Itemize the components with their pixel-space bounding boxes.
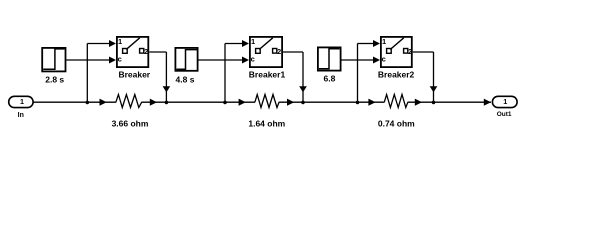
svg-text:1.64 ohm: 1.64 ohm	[248, 118, 285, 128]
svg-text:c: c	[118, 55, 122, 64]
wire: Step2 output to Breaker2 port c	[342, 57, 381, 64]
resistor R2 1.64 ohm	[248, 95, 285, 129]
wire arrow into resistor R2	[239, 99, 246, 106]
step source Step2 (6.8)	[318, 47, 341, 83]
svg-text:1: 1	[118, 37, 122, 46]
wire: node C up to Breaker1 port 1	[225, 40, 249, 102]
svg-text:1: 1	[503, 97, 507, 106]
svg-text:c: c	[251, 55, 255, 64]
node C junction dot	[223, 101, 227, 105]
wire: Breaker2 port 2 down to node F	[413, 52, 438, 102]
svg-text:0.74 ohm: 0.74 ohm	[378, 118, 415, 128]
svg-text:2: 2	[408, 49, 412, 56]
svg-text:c: c	[382, 55, 386, 64]
wire arrow into port Out1	[484, 99, 491, 106]
resistor R3 0.74 ohm	[378, 95, 415, 129]
wire arrow after resistor R2	[287, 99, 294, 106]
breaker U2 Breaker1	[249, 37, 286, 80]
svg-text:4.8 s: 4.8 s	[176, 74, 195, 84]
input port In	[9, 96, 33, 119]
node F junction dot	[432, 101, 436, 105]
wire: Step1 output to Breaker1 port c	[199, 57, 250, 64]
wire arrow after resistor R3	[415, 99, 422, 106]
svg-text:1: 1	[382, 37, 386, 46]
wire arrow into resistor R1	[100, 99, 107, 106]
svg-text:2: 2	[277, 49, 281, 56]
svg-text:1: 1	[20, 97, 24, 106]
svg-text:2.8 s: 2.8 s	[45, 74, 64, 84]
wire: node E up to Breaker2 port 1	[358, 40, 381, 102]
wire: Step output to Breaker port c	[66, 57, 116, 64]
svg-text:Breaker: Breaker	[118, 70, 150, 80]
node A junction dot	[86, 101, 90, 105]
breaker U1 Breaker	[117, 37, 151, 80]
wire: main line from In to Out1	[33, 101, 491, 103]
output port Out1	[492, 96, 517, 118]
node B junction dot	[165, 101, 169, 105]
svg-text:2: 2	[144, 49, 148, 56]
svg-text:6.8: 6.8	[323, 74, 335, 84]
svg-text:Breaker1: Breaker1	[249, 70, 286, 80]
step source Step (2.8 s)	[42, 48, 65, 85]
wire: Breaker port 2 down to node B	[149, 52, 170, 102]
svg-text:1: 1	[251, 37, 255, 46]
svg-text:In: In	[18, 112, 24, 119]
wire: Breaker1 port 2 down to node D	[283, 52, 307, 102]
wire: node A up to Breaker port 1	[87, 40, 116, 102]
node E junction dot	[356, 101, 360, 105]
wire arrow after resistor R1	[150, 99, 157, 106]
wire arrow into resistor R3	[368, 99, 375, 106]
node D junction dot	[301, 101, 305, 105]
svg-text:Out1: Out1	[497, 111, 512, 118]
svg-text:Breaker2: Breaker2	[378, 70, 415, 80]
step source Step1 (4.8 s)	[175, 48, 197, 85]
resistor R1 3.66 ohm	[112, 95, 149, 129]
svg-text:3.66 ohm: 3.66 ohm	[112, 118, 149, 128]
breaker U3 Breaker2	[378, 37, 415, 80]
